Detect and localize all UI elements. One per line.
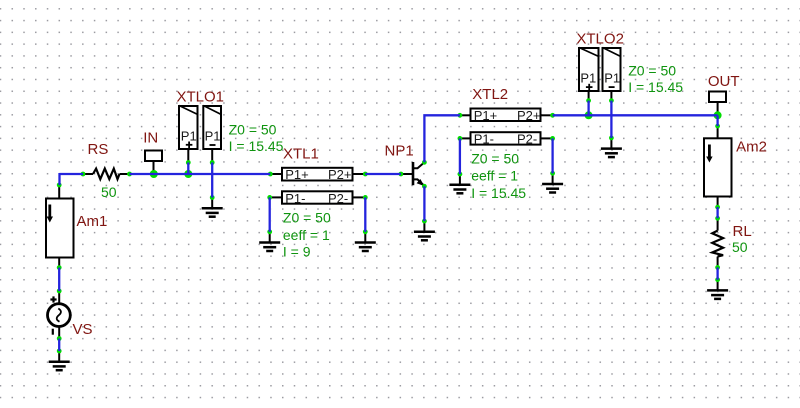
open stub XTLO1	[177, 89, 284, 163]
node dot (59.2,185)	[57, 183, 62, 188]
junction dot (188.3,174)	[184, 170, 192, 178]
resistor RS	[83, 141, 130, 200]
svg-text:P1: P1	[181, 129, 197, 144]
node dot (424.4,186.3)	[422, 184, 427, 189]
wire XTL2 P1- to ground	[459, 138, 461, 174]
node dot (552.6,115.3)	[550, 113, 555, 118]
node dot (365.3,174)	[363, 172, 368, 177]
ground under XTLO1	[202, 198, 223, 217]
node dot (270.3,174)	[268, 172, 273, 177]
node dot (552.6,138.4)	[550, 136, 555, 141]
svg-text:P2-: P2-	[328, 191, 348, 206]
svg-text:IN: IN	[143, 130, 158, 147]
node dot (212.2,197.5)	[210, 195, 215, 200]
node dot (59.2,267.6)	[57, 265, 62, 270]
node dot (459.9,138.4)	[458, 136, 463, 141]
svg-text:Z0 = 50: Z0 = 50	[471, 150, 519, 166]
svg-text:P1: P1	[205, 129, 221, 144]
node dot (717.6,126.1)	[715, 124, 720, 129]
junction dot (717.6,115.3)	[714, 111, 722, 119]
ground under XTL1 right	[355, 232, 376, 251]
svg-text:Z0 = 50: Z0 = 50	[229, 122, 277, 138]
svg-text:I = 15.45: I = 15.45	[471, 185, 526, 201]
node dot (59.2,291)	[57, 289, 62, 294]
svg-text:RL: RL	[733, 223, 752, 240]
svg-text:Am2: Am2	[736, 138, 767, 155]
node dot (365.3,197.4)	[363, 195, 368, 200]
wire XTL1 P2+ to NP1 base	[365, 173, 401, 175]
wire XTLO2 P1+ drop	[587, 101, 589, 116]
svg-text:P1: P1	[580, 71, 596, 86]
wire RS left to Am1 corner	[60, 173, 84, 175]
svg-text:P2-: P2-	[517, 132, 537, 147]
svg-text:I = 9: I = 9	[283, 244, 311, 260]
node dot (83,174)	[81, 172, 86, 177]
ground under XTLO2	[601, 138, 622, 157]
wire OUT junction to Am2	[716, 115, 718, 126]
svg-text:P2+: P2+	[328, 167, 352, 182]
ground under RL	[707, 280, 728, 299]
node dot (717.6,279.7)	[715, 277, 720, 282]
ground under VS	[49, 351, 70, 370]
junction dot (588.6,115.3)	[585, 111, 593, 119]
svg-text:Am1: Am1	[77, 213, 108, 230]
svg-text:I = 15.45: I = 15.45	[628, 79, 683, 95]
wire underlay	[59, 101, 717, 351]
node dot (59.2,351)	[57, 349, 62, 354]
wire XTL2 P2+ to OUT junction	[553, 114, 718, 116]
source VS	[48, 291, 93, 339]
wire RL to ground	[716, 267, 718, 279]
node dot (424.4,162.3)	[422, 160, 427, 165]
node dot (459.9,115.3)	[458, 113, 463, 118]
svg-text:eeff = 1: eeff = 1	[283, 227, 330, 243]
node dot (459.9,174.1)	[458, 172, 463, 177]
svg-text:eeff = 1: eeff = 1	[471, 167, 518, 183]
resistor RL	[712, 218, 751, 267]
wire main bus RS to XTL1	[130, 173, 271, 175]
ground under XTL2 right	[542, 173, 563, 192]
wire Am1 to VS	[58, 268, 60, 291]
node dot (424.4,221.1)	[422, 219, 427, 224]
svg-text:Z0 = 50: Z0 = 50	[628, 63, 676, 79]
svg-text:OUT: OUT	[708, 73, 740, 90]
node dot (588.6,100.6)	[586, 98, 591, 103]
node dot (717.6,207.1)	[715, 205, 720, 210]
node dot (129.5,174)	[127, 172, 132, 177]
coupled line XTL2	[460, 86, 553, 201]
svg-text:P1-: P1-	[474, 132, 494, 147]
wire corner down to Am1	[58, 173, 60, 185]
coupled line XTL1	[270, 146, 366, 260]
wire XTLO1 P1+ drop	[187, 163, 189, 175]
node dot (365.3,231.8)	[363, 229, 368, 234]
node dot (611.4,137.9)	[609, 136, 614, 141]
wire XTLO2 P1- drop to ground	[610, 101, 612, 138]
svg-text:P2+: P2+	[517, 108, 541, 123]
wire XTLO1 P1- drop to ground	[211, 163, 213, 198]
node dot (59.2,338.5)	[57, 336, 62, 341]
ammeter Am2	[704, 126, 767, 207]
port OUT	[708, 73, 740, 116]
svg-text:P1: P1	[604, 71, 620, 86]
transistor NP1	[385, 143, 425, 187]
node dot (269.7,231.8)	[267, 229, 272, 234]
port IN	[143, 130, 162, 175]
svg-text:Z0 = 50: Z0 = 50	[283, 210, 331, 226]
wire Am2 to RL	[716, 207, 718, 218]
svg-text:I = 15.45: I = 15.45	[229, 138, 284, 154]
Am1 bottom lead	[58, 258, 60, 268]
wire NP1 collector to XTL2 P1+	[424, 115, 460, 162]
node dot (717.6,218.3)	[715, 216, 720, 221]
svg-text:P1-: P1-	[285, 191, 305, 206]
ammeter Am1	[46, 185, 107, 268]
svg-text:50: 50	[732, 239, 748, 255]
ground under NP1 emitter	[414, 221, 435, 240]
node dot (552.6,173.3)	[550, 171, 555, 176]
wire XTL1 P2- to ground	[364, 197, 366, 231]
svg-text:VS: VS	[73, 321, 93, 338]
svg-text:P1+: P1+	[474, 108, 498, 123]
ground under XTL2 left	[449, 174, 470, 193]
wire VS to ground	[58, 339, 60, 352]
ground under XTL1 left	[259, 232, 280, 251]
svg-text:XTL2: XTL2	[472, 86, 508, 103]
junction node dots	[150, 111, 722, 178]
svg-text:P1+: P1+	[285, 167, 309, 182]
svg-text:RS: RS	[88, 141, 109, 158]
node dot (269.7,197.4)	[267, 195, 272, 200]
Am1 top lead	[58, 185, 60, 199]
node dot (400.9,174)	[399, 172, 404, 177]
svg-text:NP1: NP1	[385, 143, 414, 160]
node dot (717.6,267.4)	[715, 265, 720, 270]
svg-text:XTLO1: XTLO1	[177, 89, 225, 106]
svg-text:50: 50	[101, 184, 117, 200]
node dots	[57, 98, 720, 353]
Am1 body	[46, 199, 74, 258]
node dot (212.2,162.5)	[210, 160, 215, 165]
wire NP1 emitter to ground	[423, 186, 425, 221]
node dot (611.4,100.6)	[609, 98, 614, 103]
wire XTL1 P1- to ground	[269, 197, 271, 231]
node dot (188.3,162.5)	[186, 160, 191, 165]
svg-text:XTLO2: XTLO2	[576, 31, 624, 48]
junction dot (153.8,174)	[150, 170, 158, 178]
wire XTL2 P2- to ground	[551, 138, 553, 173]
open stub XTLO2	[576, 31, 683, 101]
svg-text:XTL1: XTL1	[283, 146, 319, 163]
